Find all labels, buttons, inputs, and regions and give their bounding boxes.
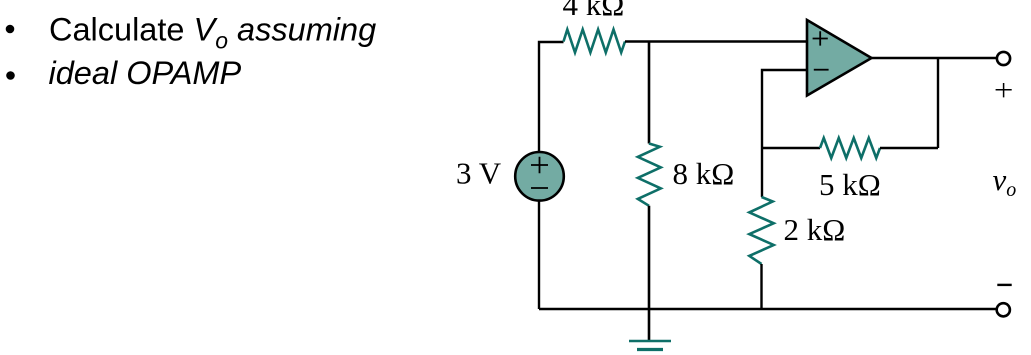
svg-text:Calculate Vo assuming: Calculate Vo assuming [49,12,376,54]
svg-text:8 kΩ: 8 kΩ [673,156,735,191]
wire 2k column top [761,148,763,197]
bullet 2 [6,71,15,80]
bullet 1 [6,25,15,34]
source minus sign [531,187,548,189]
wire top (resistor to op-amp + input) [625,40,807,42]
wire op-amp minus input [762,70,807,148]
svg-text:vo: vo [993,162,1017,201]
wire top-left vertical (source to top wire) [539,42,564,152]
resistor R2 8 kOhm zigzag [638,144,661,206]
op-amp U1 triangle [807,20,872,96]
svg-text:ideal OPAMP: ideal OPAMP [49,55,242,91]
wire bottom rail [539,308,997,310]
wire feedback right vertical [937,58,939,148]
ground bar 1 [629,340,671,343]
svg-text:4 kΩ: 4 kΩ [563,0,625,22]
resistor R4 2 kOhm zigzag [749,197,773,264]
terminal bottom output [997,303,1010,316]
voltage source V1 3V [515,152,564,201]
wire feedback bottom right segment [880,147,938,149]
op-amp minus input marker [814,69,829,71]
wire 8k column top [648,42,651,144]
resistor R1 4 kOhm zigzag [564,30,626,53]
wire 2k column bottom [760,264,762,309]
plus sign output [996,83,1012,97]
wire source bottom to bottom rail [538,201,540,310]
op-amp plus input marker [813,31,828,45]
source plus sign [531,157,548,173]
wire op-amp output [872,57,997,59]
terminal top output [997,52,1010,65]
svg-text:5 kΩ: 5 kΩ [819,167,881,202]
wire 8k column bottom to ground [648,206,651,341]
resistor R3 5 kOhm zigzag [820,138,880,158]
svg-text:2 kΩ: 2 kΩ [784,212,846,247]
minus sign output [997,284,1011,286]
svg-text:3 V: 3 V [456,156,502,191]
ground bar 2 [637,348,663,351]
wire feedback bottom left segment [762,147,820,149]
